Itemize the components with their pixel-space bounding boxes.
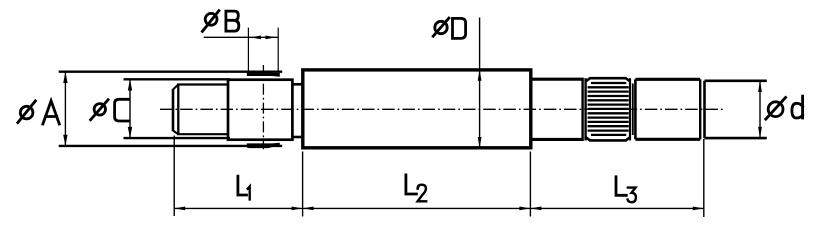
knurled nut bottom edge xyxy=(586,137,631,140)
wire: rod end bottom edge xyxy=(705,137,767,140)
label diameter symbol A xyxy=(20,106,33,119)
knurled nut right face xyxy=(629,78,631,140)
label diameter symbol D xyxy=(435,21,447,33)
knurled nut top edge xyxy=(586,78,631,81)
pin centerline vertical xyxy=(262,65,264,149)
boss bottom cap xyxy=(247,143,280,148)
label L2 xyxy=(406,175,417,194)
knurled nut right chamfer line xyxy=(632,84,634,136)
wire: stud end face xyxy=(172,89,175,131)
wire: stud top edge xyxy=(177,83,229,85)
dimension D arrows xyxy=(478,70,482,81)
dimension L1 arrows xyxy=(174,207,185,211)
wire: rod section 3 left face xyxy=(634,79,637,139)
dimension B arrows xyxy=(251,36,261,40)
label letter d xyxy=(792,96,803,118)
dimension A: dimension line xyxy=(64,72,66,146)
label letter C xyxy=(115,99,129,121)
label L3 xyxy=(616,177,626,196)
dimension d arrows xyxy=(758,81,762,92)
wire: neck bottom edge xyxy=(292,136,302,139)
wire: rod section 1 end face xyxy=(581,81,583,139)
dimension C: dimension line xyxy=(129,79,131,138)
wire: rod section 3 bottom edge xyxy=(635,138,700,141)
wire: neck top edge xyxy=(292,83,302,86)
dimension A arrows xyxy=(63,72,67,83)
wire: stud chamfer corners xyxy=(173,85,178,135)
dimension B: extension line left xyxy=(247,28,249,72)
cylinder body outline xyxy=(303,70,531,148)
clevis block outline xyxy=(228,80,292,140)
dimension C: extension line bottom xyxy=(124,137,231,139)
label letter A xyxy=(43,101,59,124)
wire: rod end top edge xyxy=(705,80,767,83)
label letter D xyxy=(453,18,466,38)
dimension L: extension line at rod step xyxy=(703,139,705,217)
dimension L3 arrows xyxy=(530,207,541,211)
label diameter symbol C xyxy=(94,104,105,115)
dimension C: extension line top xyxy=(124,78,231,80)
wire: rod end section 4 left face xyxy=(703,81,706,138)
dimension d: dimension line xyxy=(759,81,761,138)
arrows xyxy=(63,36,762,211)
wire: rod section 3 right face xyxy=(699,79,701,139)
centerline main axis xyxy=(160,108,724,110)
dimension C arrows xyxy=(128,79,132,90)
dimension D: dimension line xyxy=(479,18,481,149)
knurled nut left face xyxy=(584,78,586,140)
dimension L: extension line at cylinder right xyxy=(529,152,531,217)
dimension L: chained dimension line xyxy=(174,207,704,209)
dimension L2 arrows xyxy=(303,207,314,211)
label diameter symbol d xyxy=(768,102,783,117)
dimension A: extension line bottom xyxy=(59,145,283,147)
dimension A: extension line top xyxy=(59,70,283,72)
dimension L: extension line at rod start xyxy=(173,136,175,217)
label L1 xyxy=(238,176,247,195)
wire: stud bottom edge xyxy=(177,133,229,135)
dimension B: extension line right xyxy=(277,28,279,72)
wire: rod section 1 bottom edge xyxy=(532,138,583,141)
wire: rod section 1 top edge xyxy=(532,78,583,81)
label diameter symbol B xyxy=(205,13,217,25)
label letter B xyxy=(226,11,239,31)
knurl lines xyxy=(588,83,629,135)
wire: rod section 3 top edge xyxy=(635,78,700,81)
dimension B: dimension line xyxy=(204,36,279,38)
dimension L: extension line at cylinder left xyxy=(302,152,304,217)
boss top cap xyxy=(247,71,280,76)
wire: stud chamfer line xyxy=(177,84,179,135)
